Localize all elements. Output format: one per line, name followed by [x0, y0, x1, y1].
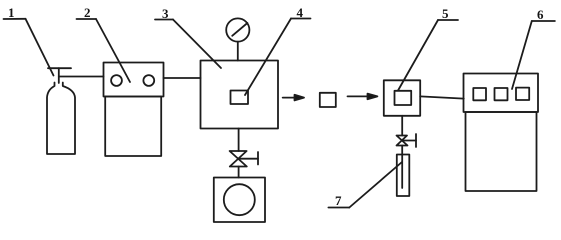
leader line to chamber 3	[173, 20, 221, 69]
pressure gauge on chamber 3	[226, 18, 249, 41]
leader line to regulator 2	[96, 19, 130, 82]
svg-text:6: 6	[537, 7, 544, 22]
wire: pipe cylinder to regulator 2	[59, 76, 104, 78]
inner cell of 5	[395, 91, 412, 105]
gas cylinder 1	[47, 83, 75, 155]
wire: valve to pump	[238, 167, 240, 178]
flow arrow out of chamber 3	[283, 95, 304, 101]
svg-text:2: 2	[84, 5, 91, 20]
leader line to cell 5	[398, 20, 438, 91]
transfer box (sample capsule)	[320, 93, 336, 107]
valve handle	[402, 140, 416, 142]
label 6	[532, 7, 555, 22]
regulator 2 body	[105, 97, 161, 157]
label 3	[155, 6, 173, 21]
flow arrow into detector 5	[348, 94, 378, 100]
leader line to sample 4	[245, 19, 291, 96]
cylinder valve handle	[48, 67, 71, 69]
vacuum pump box	[214, 178, 265, 223]
label 5	[438, 6, 458, 21]
label 2	[77, 5, 97, 20]
regulator gauge right	[143, 75, 154, 86]
valve below chamber 3	[230, 151, 258, 167]
cylinder valve stem	[58, 68, 60, 83]
valve below cell 5	[397, 134, 417, 147]
bubbler tube	[401, 155, 403, 189]
sample holder 4 inside chamber	[231, 91, 249, 105]
instrument 6 body	[466, 112, 537, 191]
label 4	[291, 5, 311, 20]
regulator gauge left	[111, 75, 122, 86]
indicator square 2	[495, 88, 508, 100]
wire: cell 5 down to valve	[401, 116, 403, 136]
instrument 6 head	[464, 74, 539, 113]
label 7	[328, 193, 349, 208]
chamber 3	[201, 61, 279, 129]
wire: cell 5 to instrument 6	[420, 96, 464, 98]
label 1	[4, 5, 26, 20]
regulator 2 head	[104, 63, 164, 97]
wire: chamber 3 down to valve	[238, 129, 240, 152]
detector cell 5	[384, 80, 420, 116]
leader line to cylinder valve	[26, 19, 54, 76]
indicator square 3	[516, 88, 529, 100]
leader line to bubbler 7	[349, 162, 402, 208]
svg-text:7: 7	[335, 193, 342, 208]
svg-text:1: 1	[8, 5, 15, 20]
svg-text:5: 5	[442, 6, 449, 21]
leader line to instrument 6	[512, 21, 532, 89]
bubbler 7 vessel	[397, 155, 410, 197]
indicator square 1	[473, 88, 486, 100]
wire: valve to bubbler 7	[401, 146, 403, 155]
valve handle	[238, 158, 258, 160]
gauge needle	[232, 23, 247, 36]
wire: regulator 2 to chamber 3	[164, 77, 201, 79]
pump rotor circle	[224, 184, 255, 215]
gauge stem	[237, 42, 239, 61]
